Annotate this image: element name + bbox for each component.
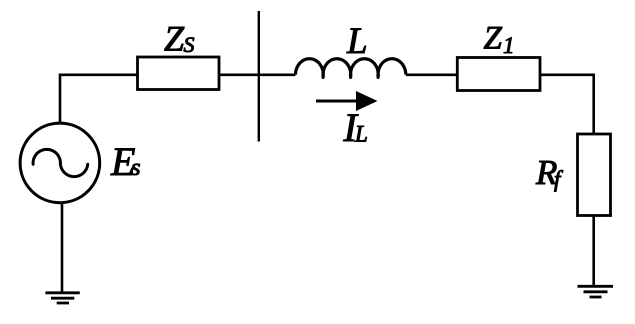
svg-text:f: f	[554, 167, 564, 192]
svg-text:Z: Z	[164, 18, 185, 58]
resistor ZS (box)	[138, 57, 220, 90]
wire from inductor to Z1	[406, 74, 458, 77]
wire from Zs to inductor	[219, 74, 296, 77]
wire from source top to Zs box	[60, 75, 138, 123]
svg-text:Z: Z	[484, 20, 503, 56]
wire from source bottom to ground	[61, 203, 64, 292]
node bus (vertical line)	[258, 11, 260, 142]
svg-text:L: L	[354, 122, 368, 147]
wire from Rf to ground	[592, 216, 595, 287]
ground (left)	[45, 291, 79, 294]
ground (right)	[578, 285, 614, 288]
current arrow IL	[316, 100, 358, 103]
svg-text:s: s	[131, 154, 141, 181]
inductor L	[296, 59, 406, 78]
resistor Z1 (box)	[457, 58, 540, 91]
svg-text:L: L	[346, 21, 368, 62]
wire from Z1 to Rf	[540, 75, 594, 134]
svg-text:1: 1	[503, 33, 515, 58]
resistor Rf (box)	[578, 134, 611, 216]
AC source Es (circle)	[20, 123, 100, 203]
sine wave inside source	[33, 149, 88, 176]
svg-text:S: S	[184, 32, 195, 57]
